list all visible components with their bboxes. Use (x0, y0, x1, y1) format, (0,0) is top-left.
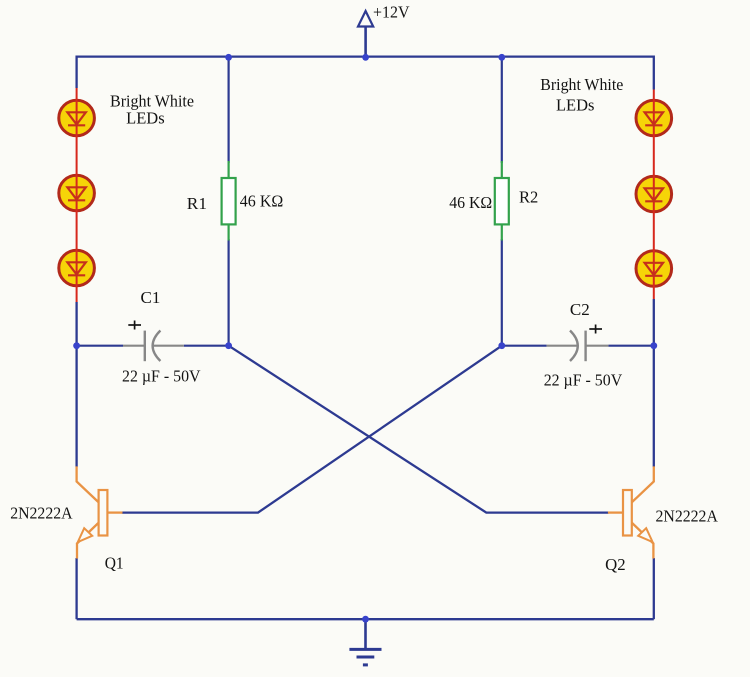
power +12V symbol (358, 11, 373, 57)
svg-text:Bright White: Bright White (540, 75, 623, 94)
LED D5 (right middle) (636, 176, 672, 212)
resistor R2 (495, 161, 509, 241)
svg-text:46 KΩ: 46 KΩ (449, 193, 492, 212)
LED D1 diode symbol (67, 112, 85, 125)
LED D3 diode symbol (67, 262, 85, 275)
wire C2 left segment (502, 345, 547, 347)
label C2 polarity + (589, 325, 602, 334)
svg-text:2N2222A: 2N2222A (656, 506, 719, 525)
transistor Q2 (608, 466, 654, 558)
capacitor C2 (547, 331, 609, 362)
wire right rail mid (LED string to collector) (653, 299, 655, 467)
LED D1 (left top) (59, 100, 95, 136)
LED D2 diode symbol (67, 187, 85, 200)
wire C1 right segment (184, 345, 229, 347)
svg-text:22 µF - 50V: 22 µF - 50V (544, 371, 623, 390)
svg-text:22 µF - 50V: 22 µF - 50V (122, 366, 201, 385)
svg-text:Q2: Q2 (605, 555, 626, 574)
junction node right rail / C2 (650, 342, 657, 349)
wire bottom rail (77, 618, 654, 620)
wire R2 branch upper (501, 57, 503, 163)
svg-text:C1: C1 (141, 288, 161, 307)
junction node C1 / R1 / Q2 base (225, 342, 232, 349)
LED D6 (right bottom) (636, 251, 672, 287)
wire left rail lower (emitter to bottom rail) (75, 558, 77, 619)
svg-text:R1: R1 (187, 194, 207, 213)
svg-text:LEDs: LEDs (556, 95, 595, 114)
junction node top rail / R1 (225, 54, 232, 61)
LED D6 diode symbol (645, 263, 663, 276)
svg-text:LEDs: LEDs (126, 108, 165, 127)
resistor R1 (222, 161, 236, 241)
svg-text:+12V: +12V (373, 2, 410, 21)
label C1 polarity + (128, 321, 141, 330)
wire C2 right segment (608, 345, 653, 347)
svg-text:C2: C2 (570, 300, 590, 319)
transistor Q1 (77, 466, 123, 558)
wire Q2 base to left cap node (cross-coupling) (229, 346, 609, 513)
junction node C2 / R2 / Q1 base (498, 342, 505, 349)
LED D5 diode symbol (645, 188, 663, 201)
wire right rail lower (emitter to bottom rail) (653, 558, 655, 619)
wire R1 branch upper (228, 57, 230, 163)
wire left rail mid (LED string to collector) (75, 302, 77, 467)
junction node left rail / C1 (73, 342, 80, 349)
LED D4 (right top) (636, 100, 672, 136)
svg-text:2N2222A: 2N2222A (10, 504, 73, 523)
ground symbol (349, 619, 381, 665)
wire right rail upper (top rail to LED string) (653, 56, 655, 90)
LED D3 (left bottom) (59, 250, 95, 286)
LED D2 (left middle) (59, 175, 95, 211)
svg-text:Q1: Q1 (105, 554, 124, 573)
wire R2 branch lower (501, 239, 503, 346)
wire C1 left segment (77, 345, 123, 347)
LED D4 diode symbol (645, 112, 663, 125)
wire top rail (77, 55, 654, 57)
wire R1 branch lower (228, 239, 230, 346)
wire left LED string lead (red) (76, 88, 78, 302)
junction node top rail / R2 (498, 54, 505, 61)
wire Q1 base to right cap node (cross-coupling) (122, 346, 502, 513)
capacitor C1 (123, 331, 184, 362)
junction node top rail / +12V (362, 54, 369, 61)
wire left rail upper (top rail to LED string) (75, 56, 77, 89)
svg-text:R2: R2 (519, 188, 538, 207)
wire right LED string lead (red) (653, 90, 655, 300)
svg-text:46 KΩ: 46 KΩ (240, 191, 283, 210)
junction node bottom rail / ground (362, 616, 369, 623)
